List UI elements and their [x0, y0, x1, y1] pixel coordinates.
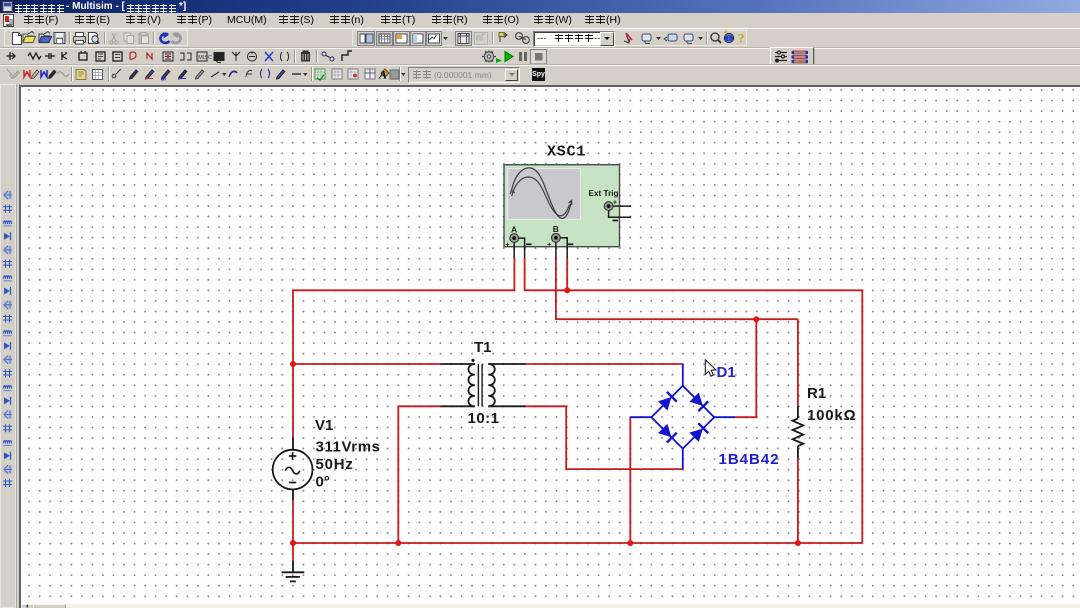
open yellow	[23, 32, 36, 43]
in-use list combo	[533, 31, 615, 47]
svg-text:R1: R1	[807, 385, 826, 402]
title bar	[0, 0, 1080, 13]
bridge D1 diamond	[651, 386, 714, 449]
Ext Trig terminal	[604, 198, 618, 221]
svg-text:100kΩ: 100kΩ	[807, 407, 856, 424]
svg-text:0°: 0°	[316, 473, 330, 490]
ground	[282, 561, 305, 581]
in-use list icons	[499, 33, 507, 43]
diode D1c bottom-left	[658, 424, 677, 443]
svg-text:311Vrms: 311Vrms	[316, 438, 381, 455]
wire T1 secondary bottom to bridge bottom	[526, 406, 683, 469]
svg-text:B: B	[553, 224, 559, 234]
left vertical toolbar	[0, 84, 20, 608]
wire bridge left to bottom rail	[629, 417, 631, 543]
cut (disabled)	[110, 33, 118, 44]
oscilloscope XSC1 body	[504, 165, 620, 247]
junction bottom rail R1	[795, 540, 801, 546]
horizontal scrollbar	[21, 604, 1080, 608]
paste (disabled)	[139, 33, 149, 44]
toolbar row 3	[0, 64, 1080, 83]
scope pin stub B-	[560, 238, 567, 258]
menu bar	[0, 13, 1080, 28]
copy (disabled)	[124, 33, 134, 44]
junction bridge+/R1	[753, 316, 759, 322]
diode D1a top-left	[658, 392, 677, 411]
svg-text:V1: V1	[315, 417, 333, 434]
wire A+ to V1 top rail	[293, 258, 514, 437]
wire B- to rail	[566, 258, 568, 290]
svg-text:50Hz: 50Hz	[316, 456, 354, 473]
svg-text:D1: D1	[717, 364, 736, 381]
save	[54, 33, 65, 44]
unit combo (disabled)	[408, 67, 520, 83]
wire R1 bottom to rail	[797, 458, 799, 543]
wire T1 secondary top to bridge	[526, 363, 683, 365]
transformer core	[478, 364, 482, 406]
junction bottom rail V1	[290, 540, 296, 546]
wire V1 bottom	[292, 500, 294, 543]
wire ground stub	[292, 543, 294, 561]
bridge D1 pin stubs	[630, 364, 735, 469]
print	[74, 33, 86, 45]
terminal B	[547, 233, 573, 248]
open blue	[39, 32, 52, 43]
simulate toolbar	[482, 50, 547, 65]
diode D1b top-right	[689, 392, 708, 411]
right group: view buttons	[358, 32, 488, 46]
Ext Trig pin stubs	[609, 206, 632, 217]
toolbar row 1	[0, 28, 1080, 48]
terminal A	[505, 234, 531, 249]
scope pin stub B+	[555, 242, 557, 258]
transformer phase dot	[471, 359, 474, 362]
preview	[89, 33, 100, 44]
source V1 symbol	[273, 437, 313, 500]
svg-text:10:1: 10:1	[468, 410, 500, 427]
svg-text:A: A	[511, 224, 517, 234]
wire bridge right to node R1	[735, 319, 756, 417]
scope pin stub A+	[513, 243, 515, 259]
junction bottom rail bridge-	[627, 540, 633, 546]
wire B+ to R1 top	[556, 258, 798, 319]
diode D1d bottom-right	[689, 423, 708, 442]
Spy button	[532, 68, 545, 81]
wire T1 primary bottom return	[398, 406, 440, 543]
transformer T1 secondary winding	[488, 364, 495, 406]
toolbar row 2	[0, 47, 1080, 65]
svg-text:XSC1: XSC1	[547, 144, 586, 161]
wire bottom rail	[293, 542, 862, 544]
floating pane	[770, 47, 814, 68]
scope pin stub A-	[519, 238, 525, 258]
wire A- around right to bottom rail	[525, 258, 863, 543]
transformer T1 primary winding	[468, 364, 474, 406]
redo	[172, 32, 181, 43]
resistor R1 leads	[797, 406, 799, 458]
svg-text:+: +	[613, 198, 618, 207]
new	[13, 33, 22, 45]
wire V1 to T1 primary top	[293, 363, 440, 365]
svg-text:+: +	[505, 240, 510, 249]
svg-text:1B4B42: 1B4B42	[719, 451, 780, 468]
undo	[160, 32, 169, 43]
wire R1 top lead	[797, 319, 799, 406]
mouse cursor	[705, 360, 716, 376]
junction bottom rail T1 return	[395, 540, 401, 546]
scope screen waveform B	[512, 177, 570, 216]
transformer T1 leads	[440, 364, 525, 406]
resistor R1 zigzag	[793, 419, 804, 447]
scope screen waveform A	[510, 168, 572, 219]
junction B- on rail	[564, 287, 570, 293]
svg-text:+: +	[547, 240, 552, 249]
junction V1/T1 node	[290, 361, 296, 367]
svg-text:T1: T1	[474, 339, 492, 356]
